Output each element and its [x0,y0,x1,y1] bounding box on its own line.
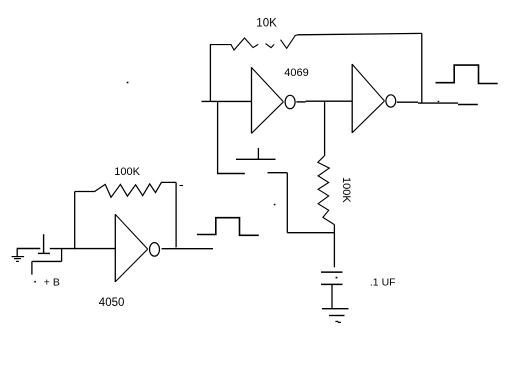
wire right feedback vertical down to U1B output [421,33,423,103]
wire U1A output to U1B input [296,101,305,103]
svg-text:100K: 100K [340,177,352,203]
stray tick right of R3 [180,185,184,187]
buffer U2 4050 triangle [114,214,116,282]
wire horizontal to R2 bottom junction [287,232,334,234]
svg-text:.1 UF: .1 UF [370,277,396,289]
wire horizontal left segment at capacitor C2 gap [217,173,245,175]
wire from R1 left end down to U1A input node [209,45,211,102]
inverter U1A 4069 triangle [251,67,253,133]
stray dot upper left [127,82,129,84]
wire U1B output [397,101,418,103]
buffer U2 output bubble [150,243,160,257]
battery B1 [43,234,45,253]
svg-text:+ B: + B [44,277,60,289]
wire junction down to R2 top [324,101,326,156]
wire R3 right vertical to U2 output [175,182,177,247]
svg-text:4069: 4069 [284,67,308,79]
resistor R2 100K (vertical zigzag) [318,156,335,225]
wire top feedback horizontal [298,33,422,34]
svg-text:10K: 10K [256,18,277,30]
junction dot on output wire [438,101,440,102]
wire horizontal right segment at capacitor C2 gap [268,172,288,174]
wire R3 left vertical [74,192,76,250]
ground symbol left [16,249,18,257]
stray dot left of + B [34,281,36,283]
stray dot middle [274,204,276,206]
wire R2 bottom down to C1 [333,225,335,268]
wire from input node down [217,101,219,173]
svg-text:100K: 100K [114,166,140,178]
ground under C1 [322,308,349,310]
wire vertical down from C-gap [286,173,288,233]
capacitor C2 plate (T symbol) above wire gap [236,158,276,160]
wire U2 output [162,248,213,250]
waveform symbol at U2 output [197,218,259,236]
waveform symbol at U1B output [436,65,498,83]
resistor R3 100K (horizontal zigzag) [75,182,176,197]
wire battery to U2 input [50,248,115,250]
wire U1A input stub [202,100,252,102]
inverter U1B output bubble [386,95,396,107]
wire ground to battery [17,248,41,250]
resistor R1 10K (hand-drawn zigzag) [210,38,258,50]
inverter U1B 4069 triangle [351,64,353,133]
svg-text:4050: 4050 [99,297,125,309]
capacitor C1 .1 UF [321,271,343,273]
inverter U1A output bubble [285,95,295,108]
